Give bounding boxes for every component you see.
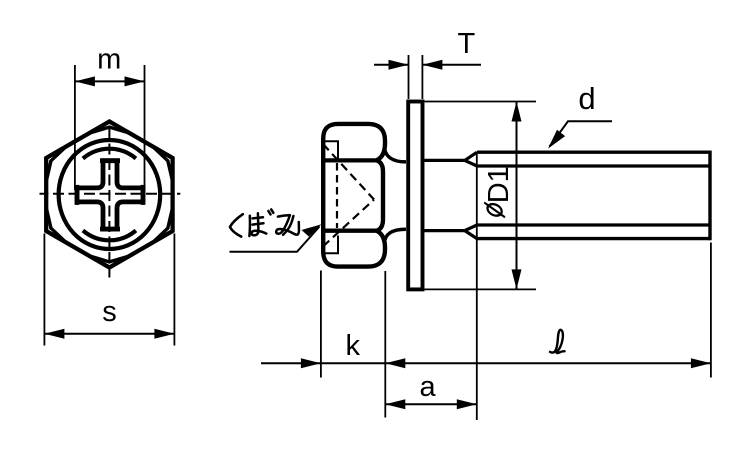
dimple (kubomi) edge on head top face, upper step	[322, 141, 339, 158]
label kubomi bo glyph	[249, 209, 273, 236]
thread root line top	[477, 164, 710, 167]
extension line phi D1 bottom	[424, 288, 536, 290]
dimple rim circle (inner, interrupted by recess wings)	[83, 149, 136, 159]
thread root line bottom	[477, 223, 710, 226]
dimple edge lower step	[322, 236, 339, 254]
shank blank line bottom	[424, 229, 465, 232]
label kubomi ku glyph	[230, 214, 243, 236]
neck fillet curve bottom	[384, 229, 406, 244]
captive washer (side)	[408, 102, 422, 290]
extension line m right	[144, 65, 146, 190]
hexagon head outline (front view)	[46, 122, 172, 268]
label l (script ell, drawn)	[550, 330, 565, 353]
svg-text:a: a	[420, 371, 437, 403]
phillips cross recess	[77, 161, 143, 229]
svg-text:D1: D1	[483, 166, 515, 203]
label kubomi mi glyph	[276, 215, 299, 235]
thread crest line bottom	[477, 237, 710, 240]
svg-text:s: s	[102, 296, 117, 328]
cross recess wing end caps	[141, 185, 146, 205]
svg-text:k: k	[346, 330, 361, 362]
extension line head left face	[320, 271, 322, 378]
svg-text:m: m	[97, 44, 121, 76]
thread runout chamfer top	[465, 152, 477, 160]
svg-text:T: T	[458, 28, 476, 60]
label phi D1 (rotated)	[483, 166, 515, 217]
shank end line	[708, 151, 711, 241]
hidden recess cone upper (dashed)	[323, 144, 374, 200]
dimension line T right part with arrow	[422, 64, 481, 66]
svg-text:d: d	[578, 81, 595, 116]
extension line s left	[43, 234, 45, 346]
horizontal centerline	[40, 193, 181, 195]
extension line T right	[421, 55, 423, 99]
dimension line s with arrows	[44, 333, 174, 335]
thread crest line top	[477, 150, 710, 153]
extension line m left	[74, 65, 76, 190]
extension line phi D1 top	[424, 101, 536, 103]
dimension line l with arrows	[321, 362, 711, 364]
dimension line k tail with outside arrow	[261, 362, 321, 364]
dimension line m with arrows	[75, 80, 145, 82]
shank blank line top	[424, 159, 465, 162]
hex head side view outline	[323, 124, 385, 267]
hidden recess cone lower (dashed)	[323, 200, 374, 247]
neck fillet curve top	[384, 146, 406, 162]
hexagon corner chamfer arcs	[109, 127, 129, 133]
thread runout chamfer bottom	[465, 231, 477, 239]
hidden dimple line (dashed)	[336, 163, 338, 228]
leader line for kubomi with arrow	[230, 227, 320, 252]
extension line s right	[173, 234, 175, 346]
extension line head bearing face	[384, 271, 386, 418]
head facet boundary line upper	[323, 158, 377, 162]
leader line for d with arrow	[550, 121, 613, 146]
dimension line phi D1 with arrows	[516, 102, 518, 290]
extension line full thread start	[476, 153, 478, 420]
vertical centerline	[108, 120, 110, 278]
dimension line a with arrows	[385, 403, 477, 405]
head chamfer circle (outer)	[59, 140, 161, 249]
extension line screw tip	[710, 243, 712, 378]
dimension line T left part with arrow	[374, 64, 409, 66]
extension line T left	[408, 55, 410, 99]
head facet boundary line lower	[323, 229, 377, 233]
